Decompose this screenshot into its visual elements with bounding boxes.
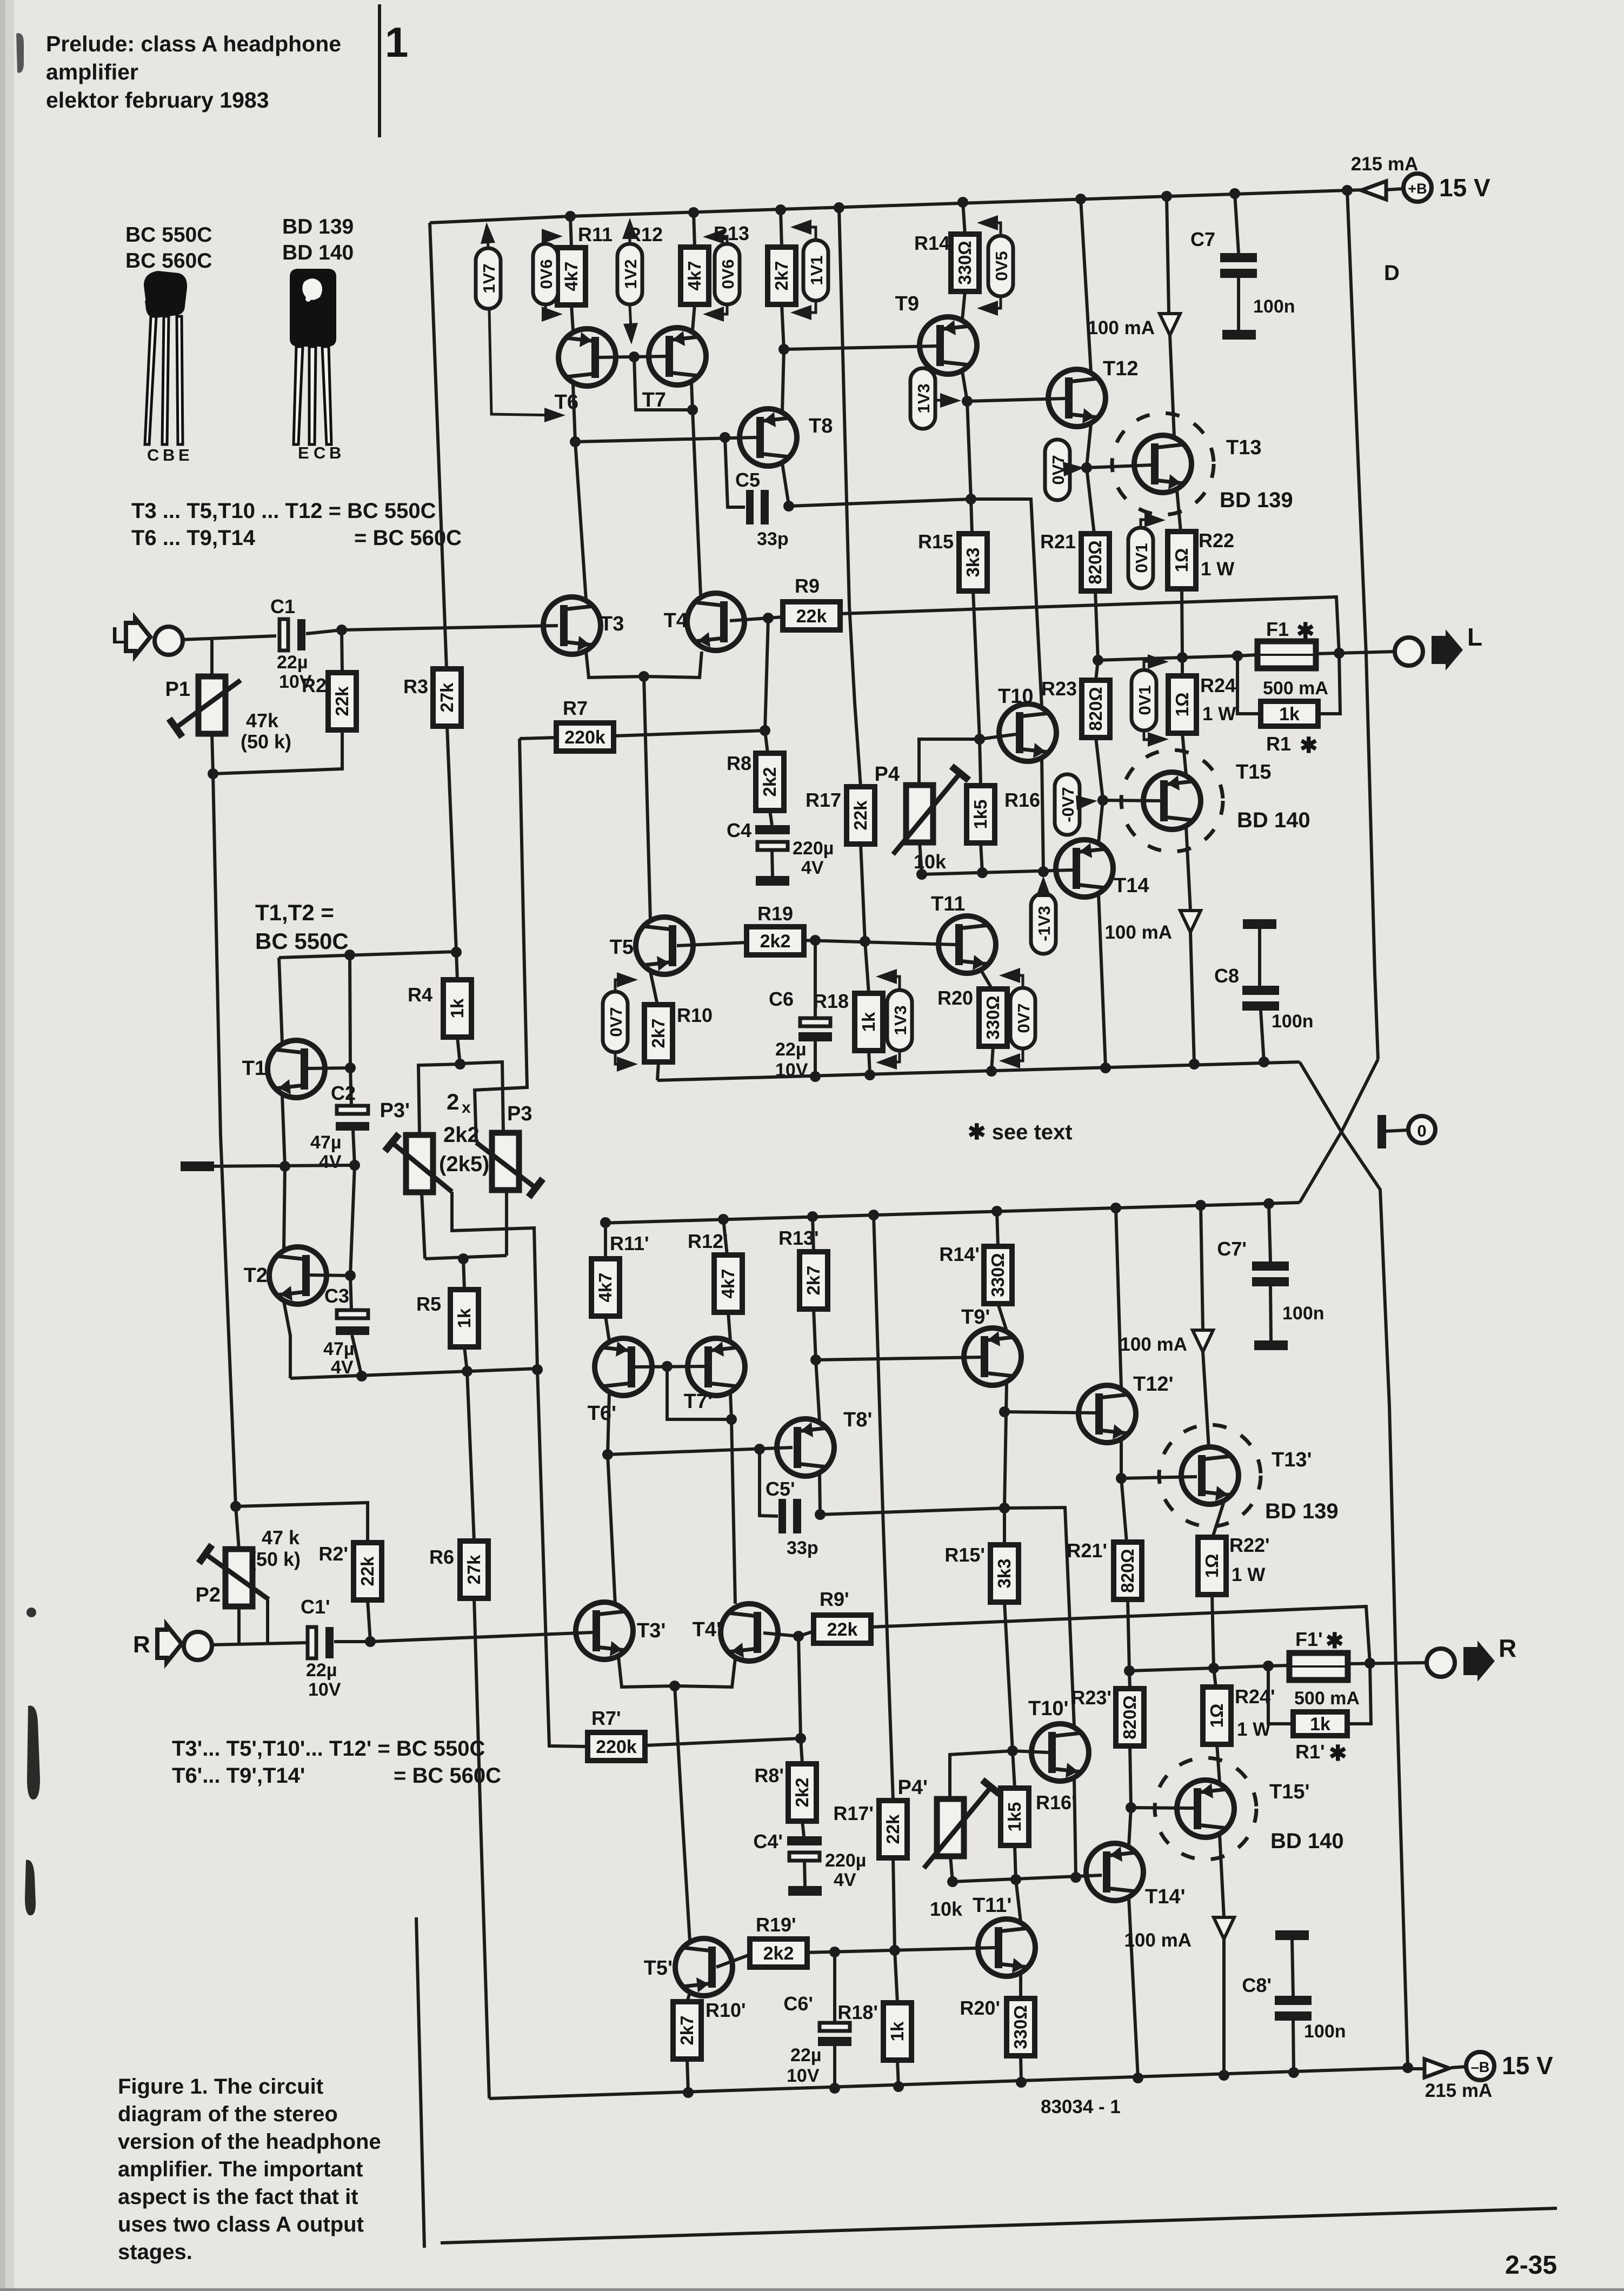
svg-text:27k: 27k (437, 682, 457, 713)
svg-text:4k7: 4k7 (718, 1269, 738, 1298)
node P1col-P2-R2' (230, 1501, 241, 1512)
svg-text:P4: P4 (875, 763, 900, 786)
wire T10 emitter (1042, 759, 1043, 872)
svg-text:83034 - 1: 83034 - 1 (1041, 2096, 1121, 2117)
wire C8' bottom stem (1293, 2021, 1294, 2073)
wire P3 bottom stem (505, 1191, 508, 1256)
wire R8' to C4' (802, 1821, 804, 1836)
wire C7' to ground (1270, 1286, 1271, 1340)
wire R15 top stem (971, 499, 972, 534)
wire P3-P3' bottoms (425, 1256, 507, 1259)
capacitor C3 47µ (337, 1310, 368, 1318)
svg-text:✱: ✱ (1296, 619, 1315, 643)
wire funnel to T13' collector (1203, 1352, 1209, 1448)
resistor R11 4k7 (557, 248, 585, 305)
wire P4' bottom stem (950, 1856, 953, 1882)
footer rule (441, 2208, 1557, 2243)
wire R output row (1129, 1665, 1289, 1671)
svg-text:version of the headphone: version of the headphone (118, 2130, 381, 2154)
wire T4b to R9 (768, 617, 783, 618)
svg-text:1Ω: 1Ω (1202, 1554, 1222, 1578)
wire T6-T7 bases (599, 356, 665, 357)
wire C5' left leg (760, 1449, 778, 1516)
wire R2 bottom to P1 bottom (213, 730, 342, 774)
wire R22' bottom (1212, 1595, 1214, 1668)
wire R11' top stem (604, 1223, 607, 1259)
svg-text:C8: C8 (1214, 965, 1239, 987)
svg-text:BD 139: BD 139 (1220, 488, 1293, 512)
svg-text:T2: T2 (244, 1264, 268, 1287)
test-voltage oval 1V2 (617, 244, 642, 304)
test arrow 1V3 to T12 base (935, 400, 956, 401)
svg-text:0V7: 0V7 (607, 1007, 625, 1037)
svg-text:22µ: 22µ (790, 2045, 821, 2066)
wire T14' emitter to T15' base (1129, 1808, 1131, 1846)
wire T4' base (763, 1633, 798, 1636)
node T10 base (974, 734, 985, 745)
ground bar C8' top (1275, 1930, 1309, 1940)
test-voltage oval 0V7 (1010, 988, 1035, 1048)
node T7' collector loop (726, 1414, 737, 1425)
svg-text:4k7: 4k7 (684, 261, 704, 290)
svg-text:BD 139: BD 139 (1265, 1499, 1339, 1523)
node T7 collector loop (687, 404, 698, 415)
svg-text:330Ω: 330Ω (1010, 2005, 1030, 2049)
capacitor C6' 22µ (820, 2023, 850, 2031)
svg-text:100n: 100n (1304, 2021, 1346, 2042)
node 0V7-T13b (1081, 462, 1092, 473)
svg-text:R2: R2 (302, 674, 327, 696)
test-voltage oval 0V1 (1132, 670, 1156, 731)
svg-text:100 mA: 100 mA (1120, 1334, 1187, 1355)
potentiometer P3 (492, 1133, 519, 1190)
wire +15V top rail (430, 189, 1385, 223)
test-voltage oval 1V3 (887, 990, 912, 1051)
transistor T15' (1155, 1758, 1256, 1860)
svg-text:R15': R15' (944, 1544, 985, 1566)
ground bar C4' (788, 1886, 822, 1896)
svg-text:R22': R22' (1229, 1534, 1270, 1556)
wire T4' base to R8' (798, 1636, 802, 1764)
wire R13 bottom (782, 304, 784, 349)
svg-text:B: B (329, 443, 341, 462)
svg-text:–B: –B (1471, 2059, 1490, 2075)
wire R10 bottom (657, 1062, 658, 1080)
svg-text:P2: P2 (196, 1584, 221, 1606)
svg-text:T7: T7 (642, 389, 666, 411)
node C1'-R2' (365, 1636, 376, 1647)
wire C7 stem (1235, 194, 1239, 253)
wire C8 bottom stem (1261, 1011, 1264, 1062)
transistor T11 (939, 916, 996, 973)
wire R2' top line (236, 1503, 368, 1543)
svg-text:0V5: 0V5 (992, 251, 1011, 281)
node R10'-rail (683, 2087, 694, 2098)
svg-text:T3'... T5',T10'... T12' = BC 5: T3'... T5',T10'... T12' = BC 550C (172, 1737, 485, 1761)
node P1-R2 (208, 768, 218, 779)
svg-text:10k: 10k (914, 851, 947, 873)
node T3c-T6c (570, 436, 581, 447)
wire T14' collector to rail (1129, 1898, 1138, 2078)
svg-text:R22: R22 (1199, 529, 1234, 552)
potentiometer P1 (198, 676, 225, 734)
svg-text:R19': R19' (756, 1914, 796, 1936)
svg-text:F1': F1' (1295, 1628, 1323, 1650)
node rail2-R11' (600, 1217, 611, 1228)
wire T8' collector (820, 1473, 820, 1513)
svg-text:(2k5): (2k5) (439, 1152, 489, 1176)
svg-text:R7': R7' (591, 1707, 621, 1729)
wire F1 to L terminal (1316, 652, 1395, 654)
resistor R10 2k7 (644, 1005, 673, 1062)
wire P4 bottom stem (920, 842, 922, 874)
node R18-bus (864, 1070, 875, 1080)
node T9' collector (999, 1503, 1010, 1513)
svg-text:22k: 22k (850, 800, 870, 831)
wire R4 to P3 top (460, 1062, 503, 1133)
wire R16' top stem (1013, 1751, 1015, 1788)
resistor R17' 22k (879, 1801, 907, 1858)
node R7'-R8' (795, 1733, 806, 1744)
wire T10' emitter (1074, 1778, 1076, 1877)
wire emitter node to T5' collector (675, 1686, 690, 1941)
test-voltage oval 0V6 (715, 244, 740, 304)
svg-text:✱ see text: ✱ see text (968, 1120, 1073, 1144)
wire funnel to T13 collector (1170, 335, 1174, 437)
node T15c-bus (1189, 1059, 1200, 1070)
svg-text:R: R (133, 1631, 150, 1658)
svg-text:10V: 10V (308, 1679, 341, 1700)
resistor R8 2k2 (756, 753, 784, 811)
svg-text:C2: C2 (331, 1082, 356, 1104)
svg-text:0V1: 0V1 (1135, 685, 1154, 715)
resistor R16 1k5 (967, 786, 995, 843)
wire R8 to C4 (770, 811, 772, 825)
node rail2-C7' (1263, 1198, 1274, 1209)
wire R23 bottom (1096, 738, 1103, 799)
test-voltage oval -0V7 (1055, 774, 1080, 835)
wire T4 base to R8 (765, 618, 768, 753)
wire node D vertical (1347, 190, 1378, 1059)
wire -15V bottom rail (489, 2068, 1408, 2099)
resistor R19 2k2 (747, 927, 804, 955)
svg-text:2-35: 2-35 (1505, 2251, 1557, 2280)
svg-text:R11: R11 (578, 223, 613, 245)
wire emitter node to T5 collector (644, 676, 650, 920)
svg-text:47k: 47k (246, 709, 279, 732)
test arrow 0V5 bottom (982, 297, 1001, 308)
ground bar at 0 terminal (1377, 1115, 1386, 1148)
svg-text:T9': T9' (961, 1306, 990, 1329)
wire top-channel bottom bus (657, 1062, 1300, 1080)
svg-text:amplifier: amplifier (46, 59, 138, 84)
capacitor C4 220µ (755, 825, 790, 834)
node rail-D (1342, 185, 1353, 196)
wire T3 collector (575, 442, 586, 600)
current marker 100mA T15' (1214, 1917, 1234, 1939)
node R20-bus (986, 1066, 997, 1077)
node R16 bottom (977, 867, 988, 878)
node P3'wiper-L2 (532, 1364, 543, 1375)
svg-text:R1: R1 (1266, 733, 1291, 755)
wire R10' bottom (687, 2059, 688, 2093)
ground bar C7' (1254, 1340, 1288, 1350)
wire C4 to ground (772, 850, 773, 876)
resistor R13' 2k7 (800, 1252, 828, 1309)
potentiometer P3' (406, 1135, 433, 1192)
svg-text:330Ω: 330Ω (955, 241, 975, 285)
wire R5 top stem (463, 1259, 464, 1290)
svg-text:100 mA: 100 mA (1124, 1930, 1192, 1951)
wire T12e down to R21 (1087, 468, 1094, 534)
wire R9' feedback to output (871, 1606, 1370, 1663)
svg-text:1k: 1k (447, 998, 467, 1018)
terminal -B 15V (1466, 2052, 1494, 2080)
svg-text:+B: +B (1408, 181, 1427, 197)
svg-text:D: D (1384, 261, 1400, 285)
wire T9 base (784, 346, 936, 349)
node rail2-T12' (1110, 1203, 1121, 1213)
node R20'-rail (1016, 2077, 1027, 2088)
svg-text:1: 1 (385, 18, 408, 66)
wire T1 collector node row (279, 952, 456, 958)
svg-text:R23': R23' (1071, 1686, 1111, 1709)
svg-text:215 mA: 215 mA (1425, 2080, 1493, 2101)
svg-text:1k: 1k (858, 1012, 878, 1032)
svg-text:15 V: 15 V (1439, 174, 1490, 202)
svg-text:1Ω: 1Ω (1207, 1704, 1227, 1728)
node T10' emitter row (1070, 1872, 1081, 1883)
svg-text:T6': T6' (588, 1402, 616, 1425)
node rail-R12 (688, 207, 699, 218)
wire rail2 col to R17' (874, 1215, 893, 1801)
wire R15' top stem (1003, 1508, 1006, 1545)
resistor R11' 4k7 (591, 1259, 620, 1316)
wire T9c bend down to T10 collector (971, 499, 1042, 707)
wire R16 top stem (980, 739, 981, 786)
test arrow 0V7 R20 bottom (1004, 1050, 1023, 1061)
node T12 base (962, 396, 973, 407)
svg-text:C6: C6 (769, 988, 794, 1010)
svg-text:L: L (1467, 623, 1482, 651)
node F1' left (1263, 1661, 1274, 1671)
wire top-channel bottom bus to -15V diagonal (1300, 1062, 1408, 2068)
svg-text:10k: 10k (930, 1898, 963, 1920)
transistor T6' (595, 1338, 652, 1396)
wire T14' base row (953, 1875, 1102, 1882)
wire base loop to T7' collector (667, 1366, 731, 1419)
svg-text:R5: R5 (416, 1293, 441, 1315)
wire R11 top stem (570, 216, 571, 248)
capacitor C8' 100n (1275, 1996, 1312, 2005)
svg-text:500 mA: 500 mA (1294, 1688, 1360, 1709)
transistor T15 (1121, 750, 1223, 852)
svg-text:1 W: 1 W (1232, 1564, 1265, 1585)
svg-text:T14: T14 (1114, 874, 1149, 897)
capacitor C8 100n (1242, 986, 1279, 995)
svg-text:R1': R1' (1295, 1741, 1325, 1763)
wire T15' collector (1220, 1835, 1224, 1917)
svg-text:stages.: stages. (118, 2240, 192, 2264)
wire T15 base (1103, 800, 1160, 801)
test arrow 1V2 up (629, 223, 631, 243)
capacitor C7 100n (1220, 253, 1257, 262)
svg-text:diagram of the stereo: diagram of the stereo (118, 2102, 338, 2126)
ground bar C4 (756, 876, 789, 886)
svg-text:2k2: 2k2 (443, 1123, 480, 1147)
svg-text:BC 560C: BC 560C (125, 249, 212, 273)
resistor R7' 220k (588, 1732, 645, 1761)
node T15' base (1126, 1802, 1136, 1813)
resistor R5 1k (450, 1290, 478, 1347)
wire P2 wiper drop (266, 1599, 269, 1644)
capacitor C1 22µ (279, 619, 288, 650)
test arrow 1V3 R18 bottom (881, 1052, 900, 1063)
wire mid supply rail R channel (601, 1203, 1300, 1223)
node T1 base (345, 1063, 356, 1073)
transistor T8 (740, 409, 797, 466)
test-voltage oval 1V7 (476, 248, 501, 309)
node C5' right / T8'c (815, 1509, 826, 1520)
test arrow 0V6b bottom (708, 306, 727, 314)
node R3-R4 (451, 947, 462, 958)
wire R23' top stem (1129, 1671, 1130, 1689)
wire C6 top stem (814, 940, 817, 1018)
svg-text:R21: R21 (1040, 530, 1076, 553)
wire C2 to ground line (353, 1131, 355, 1165)
wire T12' collector to rail (1116, 1208, 1121, 1388)
test arrow -0V7 to T15 base (1080, 801, 1092, 802)
svg-text:BC 550C: BC 550C (125, 223, 212, 247)
wire R16 bottom (981, 843, 982, 873)
svg-text:33p: 33p (757, 529, 789, 549)
wire T13' base (1121, 1477, 1197, 1478)
wire to +B terminal (1386, 189, 1403, 190)
svg-text:R17': R17' (833, 1802, 874, 1824)
resistor R9' 22k (814, 1615, 871, 1643)
wire rail col to R17 (839, 208, 861, 787)
wire R20 bottom (991, 1046, 993, 1071)
node Xline-rail (1402, 2062, 1413, 2073)
svg-text:22µ: 22µ (277, 652, 308, 673)
resistor R22' 1Ω (1198, 1537, 1226, 1595)
wire T4'b to R9' (798, 1631, 814, 1636)
wire R21' bottom (1128, 1599, 1129, 1671)
wire P1 bottom stem (212, 734, 213, 774)
wire T10' base (1013, 1751, 1048, 1752)
node C8-bus (1259, 1057, 1269, 1067)
wire R12 top stem (694, 213, 695, 247)
node T4 base (763, 613, 774, 623)
resistor R1 1k (1261, 701, 1318, 726)
svg-text:215 mA: 215 mA (1351, 154, 1419, 175)
svg-text:3k3: 3k3 (963, 547, 983, 577)
svg-text:100n: 100n (1253, 296, 1295, 317)
wire L input to C1 (182, 636, 276, 640)
transistor T3 (543, 597, 601, 654)
svg-text:1V2: 1V2 (621, 259, 640, 289)
wire R13' bottom (814, 1309, 816, 1360)
node T10' base (1007, 1745, 1018, 1756)
test-voltage oval 0V1 (1128, 528, 1153, 588)
svg-text:220k: 220k (564, 727, 605, 748)
svg-text:1V3: 1V3 (914, 383, 933, 413)
node F1' right (1365, 1658, 1375, 1669)
wire T15'c funnel to rail (1222, 1939, 1226, 2075)
svg-text:R14': R14' (939, 1243, 980, 1265)
svg-text:T6'... T9',T14': T6'... T9',T14' (172, 1764, 305, 1788)
svg-text:47 k: 47 k (262, 1526, 300, 1549)
svg-text:x: x (462, 1099, 471, 1117)
svg-text:2k7: 2k7 (771, 261, 791, 290)
wire T14 collector to bus (1099, 894, 1106, 1067)
transistor T4 (687, 593, 744, 650)
wire R11' to T6' emitter (605, 1316, 609, 1341)
node C6'-rail (829, 2083, 840, 2094)
wire ground line L1 (204, 1165, 355, 1166)
node R21-R23 (1093, 655, 1103, 666)
svg-text:1 W: 1 W (1201, 559, 1234, 580)
test arrow 0V1 to R24 top (1144, 661, 1163, 669)
svg-text:BD 140: BD 140 (282, 241, 354, 264)
test arrow 0V7 R20 top (1004, 975, 1023, 987)
input terminal L (155, 627, 183, 655)
wire R2' bottom (368, 1600, 370, 1642)
wire T6'-T7' bases (635, 1366, 704, 1367)
transistor T2 (269, 1247, 327, 1304)
output terminal R (1427, 1649, 1455, 1677)
resistor R4 1k (443, 980, 471, 1037)
wire T6'c down to T3' (608, 1455, 615, 1605)
node C6' top (829, 1947, 840, 1957)
svg-text:1Ω: 1Ω (1172, 693, 1192, 717)
wire C1' to T3' base (334, 1632, 593, 1642)
wire C6' top stem (833, 1952, 836, 2023)
node R7-R8 (760, 725, 770, 736)
test arrow 1V1 bottom (796, 302, 816, 313)
wire R2 top stem (342, 630, 342, 673)
ground bar C7 (1222, 330, 1256, 340)
wire R21' top stem (1121, 1478, 1127, 1542)
wire T2 base (308, 1275, 350, 1276)
svg-text:2k2: 2k2 (792, 1777, 812, 1807)
transistor T5 (636, 917, 693, 974)
wire R12' top stem (723, 1219, 727, 1255)
output terminal L (1395, 638, 1423, 666)
wire R24 to T15 emitter (1182, 733, 1186, 775)
node rail2-R14' (991, 1206, 1002, 1217)
current marker 100mA T15 (1180, 911, 1201, 932)
capacitor C1' 22µ (308, 1627, 316, 1658)
wire T8 collector (782, 463, 789, 505)
svg-text:BD 139: BD 139 (282, 215, 354, 238)
svg-text:820Ω: 820Ω (1117, 1549, 1137, 1593)
resistor R13 2k7 (768, 247, 796, 304)
current marker 100mA T13' (1193, 1330, 1213, 1352)
resistor R19' 2k2 (750, 1939, 807, 1967)
svg-text:R: R (1499, 1634, 1516, 1662)
wire T1 collector (279, 958, 282, 1043)
svg-text:amplifier. The important: amplifier. The important (118, 2157, 363, 2181)
wire R14 top stem (963, 202, 965, 234)
svg-text:22µ: 22µ (306, 1660, 337, 1681)
transistor T8' (777, 1419, 834, 1476)
node T6T7 base (629, 351, 640, 362)
wire T11' collector (1016, 1880, 1021, 1922)
node rail-C7 (1229, 188, 1240, 199)
node T10 emitter row (1038, 866, 1049, 877)
wire T11' base row (807, 1948, 995, 1953)
